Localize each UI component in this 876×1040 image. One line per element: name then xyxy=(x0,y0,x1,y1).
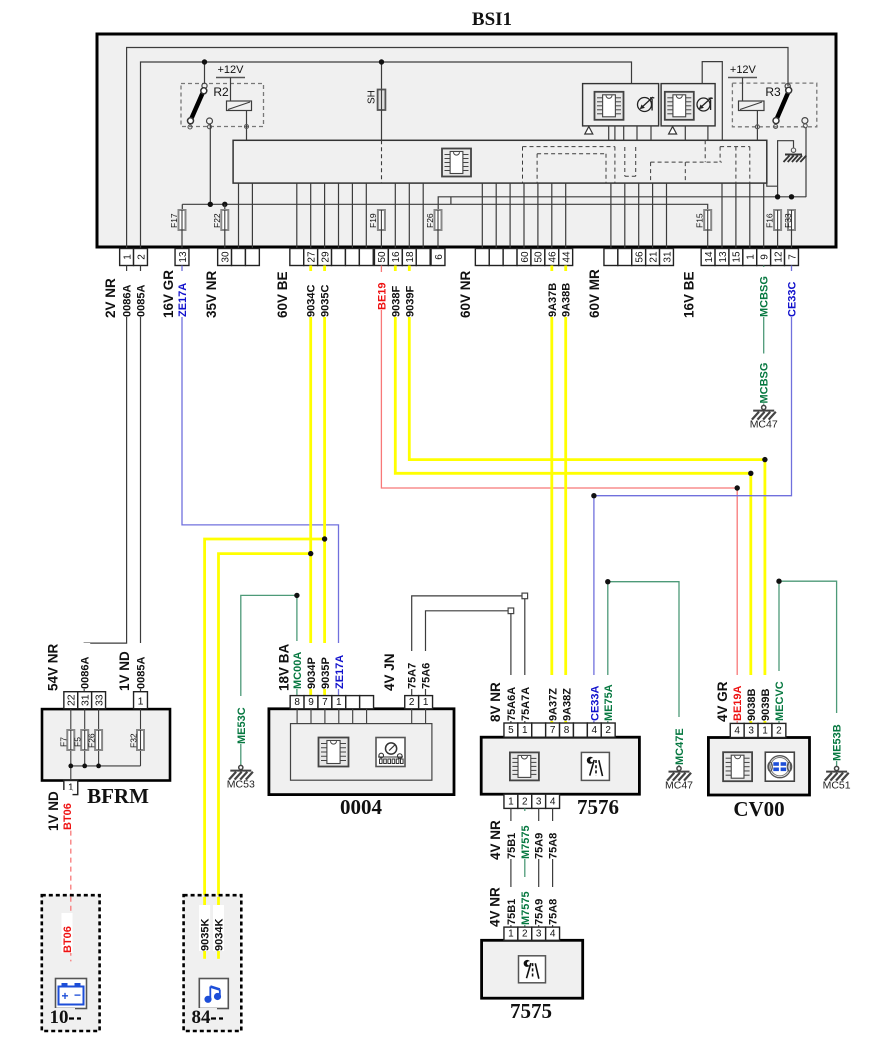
svg-text:7: 7 xyxy=(550,725,556,736)
svg-text:9034K: 9034K xyxy=(213,919,225,951)
svg-text:44: 44 xyxy=(562,251,573,263)
svg-text:R3: R3 xyxy=(765,85,781,99)
svg-text:3: 3 xyxy=(748,726,754,737)
svg-text:9: 9 xyxy=(308,697,314,708)
svg-text:0086A: 0086A xyxy=(122,285,134,317)
svg-text:4V GR: 4V GR xyxy=(715,681,730,722)
svg-text:50: 50 xyxy=(534,251,545,263)
svg-text:30: 30 xyxy=(220,251,231,263)
wire A (top feed to pin 1 / relay R3) xyxy=(127,48,788,249)
svg-text:+: + xyxy=(61,989,68,1003)
svg-text:56: 56 xyxy=(635,251,646,263)
svg-text:0085A: 0085A xyxy=(135,285,147,317)
fuse F19 xyxy=(368,209,385,231)
svg-text:9A38Z: 9A38Z xyxy=(561,688,573,721)
svg-text:F15: F15 xyxy=(695,213,705,228)
IC in 7576 xyxy=(510,752,539,780)
svg-text:+12V: +12V xyxy=(218,64,245,76)
svg-text:35V NR: 35V NR xyxy=(204,270,219,318)
fuse F16 xyxy=(765,209,782,231)
svg-text:7575: 7575 xyxy=(510,999,552,1023)
7576 labels xyxy=(488,675,615,722)
wire MC00A / ME53C xyxy=(241,595,297,765)
CV00 pins xyxy=(730,723,786,737)
svg-text:7: 7 xyxy=(322,697,328,708)
svg-text:1: 1 xyxy=(746,254,757,260)
0004 pins xyxy=(290,696,432,724)
svg-text:84: 84 xyxy=(192,1007,212,1028)
internal dashed links xyxy=(523,140,750,183)
svg-text:75A8: 75A8 xyxy=(548,833,560,859)
svg-text:18V BA: 18V BA xyxy=(276,643,291,691)
svg-text:MC00A: MC00A xyxy=(292,652,304,689)
wire 0085A xyxy=(140,266,142,692)
svg-text:F26: F26 xyxy=(425,213,435,228)
svg-text:16V GR: 16V GR xyxy=(161,270,176,318)
road/nav icon in 7576 xyxy=(581,752,609,780)
BFRM top pins xyxy=(64,692,148,709)
module box U2 (with IC + gauge) xyxy=(661,84,715,126)
svg-text:MCBSG: MCBSG xyxy=(759,363,771,404)
svg-text:8: 8 xyxy=(564,725,570,736)
wire 9035C / 9035P xyxy=(323,266,326,696)
svg-text:MC47: MC47 xyxy=(750,419,778,431)
svg-text:2: 2 xyxy=(409,697,415,708)
svg-text:21: 21 xyxy=(648,251,659,263)
svg-text:54V NR: 54V NR xyxy=(45,643,60,691)
0004 labels xyxy=(276,641,432,691)
svg-text:13: 13 xyxy=(178,251,189,263)
svg-text:75A9: 75A9 xyxy=(534,899,546,925)
svg-text:CE33C: CE33C xyxy=(786,281,798,317)
wire BT06 (battery feed) xyxy=(70,795,72,962)
svg-text:MECVC: MECVC xyxy=(774,681,786,721)
BFRM bottom pin 1 xyxy=(64,781,78,795)
svg-text:9: 9 xyxy=(760,254,771,260)
wire 9A38B / 9A38Z xyxy=(564,266,567,724)
svg-text:8: 8 xyxy=(294,697,300,708)
svg-text:2: 2 xyxy=(776,726,782,737)
svg-text:27: 27 xyxy=(307,251,318,263)
svg-text:4V NR: 4V NR xyxy=(487,887,502,927)
svg-text:22: 22 xyxy=(66,694,78,706)
BFRM labels xyxy=(45,643,147,691)
svg-text:ME75A: ME75A xyxy=(603,684,615,721)
svg-text:75A7: 75A7 xyxy=(407,663,419,689)
wire 75A7 / 75A7A xyxy=(412,596,522,696)
svg-text:CE33A: CE33A xyxy=(589,685,601,721)
svg-text:12: 12 xyxy=(773,251,784,263)
fuse F26 xyxy=(425,209,441,231)
svg-text:2: 2 xyxy=(522,928,528,939)
svg-text:4: 4 xyxy=(550,796,556,807)
svg-text:75A6: 75A6 xyxy=(421,663,433,689)
svg-text:F5: F5 xyxy=(73,737,83,747)
wire F16 riser + ground tap xyxy=(778,141,794,197)
svg-text:F22: F22 xyxy=(212,213,222,228)
relay R2 xyxy=(181,59,264,204)
svg-text:16V BE: 16V BE xyxy=(681,271,696,318)
svg-text:60V MR: 60V MR xyxy=(587,269,602,318)
svg-text:9039B: 9039B xyxy=(760,689,772,721)
wire 0086A xyxy=(84,266,126,692)
svg-text:60V NR: 60V NR xyxy=(458,270,473,318)
svg-text:9035K: 9035K xyxy=(200,919,212,951)
svg-text:3: 3 xyxy=(536,928,542,939)
svg-text:60V BE: 60V BE xyxy=(275,271,290,318)
svg-text:4: 4 xyxy=(550,928,556,939)
svg-text:75A6A: 75A6A xyxy=(506,687,518,721)
svg-text:3: 3 xyxy=(536,796,542,807)
svg-text:4: 4 xyxy=(734,726,740,737)
wire 9035K branch xyxy=(205,539,325,959)
IC in CV00 xyxy=(723,752,752,781)
svg-text:R2: R2 xyxy=(213,85,229,99)
ECU box 7576 xyxy=(481,737,639,819)
svg-text:50: 50 xyxy=(377,251,388,263)
ECU box BFRM xyxy=(42,709,170,808)
svg-text:29: 29 xyxy=(320,251,331,263)
svg-text:4V JN: 4V JN xyxy=(382,653,397,691)
fuse F15 xyxy=(695,209,712,231)
wire 9038F / 9038B xyxy=(395,266,751,724)
svg-text:75B1: 75B1 xyxy=(506,833,518,859)
svg-text:9035C: 9035C xyxy=(320,285,332,317)
svg-text:75B1: 75B1 xyxy=(506,899,518,925)
ECU box 0004 xyxy=(269,709,454,819)
fuse SH xyxy=(367,59,386,110)
BFRM internal wiring xyxy=(68,709,140,780)
wire CE33C / CE33A xyxy=(594,266,792,724)
radio unit icon in 0004 xyxy=(376,738,405,767)
ground MC51 xyxy=(823,766,851,791)
7576 top pins xyxy=(504,723,615,737)
svg-text:1: 1 xyxy=(336,697,342,708)
svg-text:1: 1 xyxy=(522,725,528,736)
svg-text:−: − xyxy=(74,988,81,1002)
wire MECVC / ME53B xyxy=(779,581,837,766)
svg-text:MC47: MC47 xyxy=(665,780,693,792)
svg-text:6: 6 xyxy=(434,254,445,260)
svg-text:0085A: 0085A xyxy=(135,657,147,689)
svg-text:9A37Z: 9A37Z xyxy=(548,688,560,721)
svg-text:BSI1: BSI1 xyxy=(472,9,512,30)
svg-text:2: 2 xyxy=(605,725,611,736)
ECU box CV00 xyxy=(708,738,809,822)
wire ME75A / MC47E xyxy=(608,582,679,766)
fuse F5 xyxy=(73,729,89,751)
svg-text:+12V: +12V xyxy=(730,64,757,76)
svg-text:9A38B: 9A38B xyxy=(561,283,573,317)
svg-text:F33: F33 xyxy=(783,213,793,228)
connector group labels xyxy=(103,269,697,318)
fuse F32 xyxy=(129,729,144,751)
wire 9034K branch xyxy=(219,554,311,959)
wires module U1 to internal box xyxy=(608,126,610,140)
connector splice 75A7 xyxy=(522,593,528,599)
svg-text:9034C: 9034C xyxy=(306,285,318,317)
svg-text:15: 15 xyxy=(732,251,743,263)
connector arrow U1 xyxy=(585,127,593,135)
svg-text:1: 1 xyxy=(762,726,768,737)
svg-text:14: 14 xyxy=(704,251,715,263)
svg-text:10: 10 xyxy=(50,1007,69,1028)
svg-text:1V ND: 1V ND xyxy=(46,791,61,831)
svg-text:0004: 0004 xyxy=(340,795,383,819)
svg-text:F19: F19 xyxy=(368,213,378,228)
svg-text:BE19A: BE19A xyxy=(732,685,744,721)
wire R3 output to fuse bus xyxy=(805,128,807,198)
svg-text:9038F: 9038F xyxy=(390,286,402,317)
svg-text:MCBSG: MCBSG xyxy=(759,276,771,317)
svg-text:0086A: 0086A xyxy=(80,657,92,689)
BSI1 connector pin row xyxy=(120,249,799,266)
svg-text:9A37B: 9A37B xyxy=(547,283,559,317)
svg-text:75A7A: 75A7A xyxy=(520,687,532,721)
svg-text:MC51: MC51 xyxy=(823,780,851,792)
wire bus F26/F16/F33 xyxy=(438,197,806,211)
wire fuse bus (F17/F22/F15) xyxy=(182,204,707,211)
svg-text:9034P: 9034P xyxy=(306,657,318,689)
svg-text:31: 31 xyxy=(662,251,673,263)
wire BE19 / BE19A xyxy=(381,266,737,724)
7576 bottom pins xyxy=(504,794,560,808)
svg-text:7: 7 xyxy=(787,254,798,260)
ground MC47 (BSI side) xyxy=(750,405,778,430)
svg-text:ME53B: ME53B xyxy=(832,724,844,761)
wire B (feed to pin 2 / R2 / SH / module) xyxy=(141,62,632,249)
svg-text:8V NR: 8V NR xyxy=(488,682,503,722)
svg-text:2: 2 xyxy=(522,796,528,807)
svg-text:2: 2 xyxy=(136,254,147,260)
svg-text:75A9: 75A9 xyxy=(534,833,546,859)
svg-text:F17: F17 xyxy=(169,213,179,228)
wire labels at BSI1 xyxy=(121,267,798,317)
svg-text:7576: 7576 xyxy=(577,795,619,819)
wire 9039F / 9039B xyxy=(409,266,765,724)
svg-text:18: 18 xyxy=(405,251,416,263)
module box U1 (with IC + gauge) xyxy=(583,84,659,126)
svg-text:1V ND: 1V ND xyxy=(117,651,132,691)
wire MCBSG xyxy=(763,266,765,405)
svg-text:ME53C: ME53C xyxy=(236,707,248,744)
svg-text:75A8: 75A8 xyxy=(548,899,560,925)
svg-text:60: 60 xyxy=(520,251,531,263)
fuse F26 (BFRM) xyxy=(87,729,103,751)
ECU box 7575 xyxy=(482,940,583,1023)
internal module box xyxy=(233,140,767,183)
7575 pins xyxy=(504,927,560,940)
svg-text:16: 16 xyxy=(391,251,402,263)
svg-text:2V NR: 2V NR xyxy=(103,278,118,318)
7575 labels xyxy=(487,877,559,927)
wire 75A6 / 75A6A xyxy=(426,611,509,696)
ground MC47 (component side) xyxy=(665,766,693,791)
ground (internal, near R3) xyxy=(784,148,807,162)
relay R3 xyxy=(728,64,817,140)
fuse F33 xyxy=(783,209,795,231)
svg-text:1: 1 xyxy=(138,696,144,708)
wire 9034C / 9034P xyxy=(309,266,312,696)
svg-text:M7575: M7575 xyxy=(520,825,532,859)
loudspeaker box 84 xyxy=(184,895,242,1031)
svg-text:4V NR: 4V NR xyxy=(488,820,503,860)
wire bus stub xyxy=(450,197,452,205)
svg-text:MC53: MC53 xyxy=(227,779,255,791)
svg-text:ZE17A: ZE17A xyxy=(334,655,346,689)
svg-text:F16: F16 xyxy=(765,213,775,228)
svg-text:31: 31 xyxy=(80,694,92,706)
svg-text:MC47E: MC47E xyxy=(674,728,686,765)
svg-text:9039F: 9039F xyxy=(404,286,416,317)
svg-text:BT06: BT06 xyxy=(62,926,74,953)
svg-text:BT06: BT06 xyxy=(62,803,74,830)
IC U-internal xyxy=(442,149,471,177)
svg-text:M7575: M7575 xyxy=(520,891,532,925)
wire module U2 top feed xyxy=(702,62,722,141)
svg-text:BFRM: BFRM xyxy=(87,784,149,808)
svg-text:13: 13 xyxy=(718,251,729,263)
svg-text:9035P: 9035P xyxy=(320,657,332,689)
svg-text:1: 1 xyxy=(508,796,514,807)
svg-text:33: 33 xyxy=(93,694,105,706)
wire 9A37B / 9A37Z xyxy=(550,266,553,724)
ECU box BSI1 xyxy=(97,9,836,247)
svg-text:CV00: CV00 xyxy=(733,797,784,821)
wire ZE17A xyxy=(182,266,339,696)
svg-text:46: 46 xyxy=(548,251,559,263)
connector arrow U2 xyxy=(669,127,677,135)
svg-text:1: 1 xyxy=(122,254,133,260)
svg-text:SH: SH xyxy=(367,90,378,104)
svg-text:9038B: 9038B xyxy=(746,689,758,721)
svg-text:1: 1 xyxy=(423,697,429,708)
supply box 10 (battery) xyxy=(42,895,100,1031)
IC in 0004 xyxy=(319,738,349,767)
svg-text:F32: F32 xyxy=(129,733,139,748)
fuse F7 xyxy=(59,729,75,751)
connector splice 75A6 xyxy=(508,608,514,614)
wires module U2 to internal box xyxy=(684,126,686,140)
svg-text:BE19: BE19 xyxy=(376,282,388,310)
ground MC53 xyxy=(227,765,255,790)
svg-text:1: 1 xyxy=(508,928,514,939)
CV00 labels xyxy=(715,671,786,722)
road/nav icon in 7575 xyxy=(519,956,546,983)
svg-text:4: 4 xyxy=(592,725,598,736)
wire SH dashed continuation xyxy=(381,140,383,183)
svg-text:5: 5 xyxy=(508,725,514,736)
wire internal box corner link xyxy=(767,183,778,186)
wires internal box to connector pins xyxy=(182,183,792,248)
fuse F22 xyxy=(212,209,228,231)
fuse F17 xyxy=(169,209,185,231)
svg-text:ZE17A: ZE17A xyxy=(177,283,189,317)
svg-text:F26: F26 xyxy=(87,733,97,748)
svg-text:F7: F7 xyxy=(59,737,69,747)
wires 7576 to 7575 xyxy=(511,808,553,927)
connector icon in CV00 xyxy=(765,752,794,781)
7576 bottom labels xyxy=(488,811,560,860)
